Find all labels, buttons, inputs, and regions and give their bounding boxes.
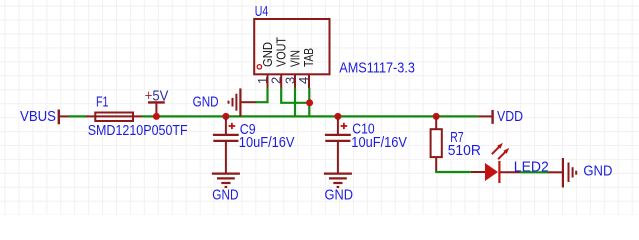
svg-text:U4: U4 xyxy=(255,4,269,20)
pin 1 indicator circle xyxy=(257,65,261,69)
svg-text:SMD1210P050TF: SMD1210P050TF xyxy=(88,123,188,139)
svg-text:GND: GND xyxy=(212,187,238,203)
wire pin4 down through junction to main wire xyxy=(308,88,310,117)
svg-text:10uF/16V: 10uF/16V xyxy=(239,135,295,151)
svg-text:GND: GND xyxy=(583,164,612,180)
ground flag at U4 (rotated left) xyxy=(193,88,256,116)
svg-text:GND: GND xyxy=(193,95,219,111)
wire pin2 to pin4 junction xyxy=(281,88,309,103)
svg-text:+5V: +5V xyxy=(145,89,169,105)
op-amp U4 box (AMS1117-3.3 regulator) xyxy=(254,4,329,75)
ground C10 xyxy=(324,174,353,204)
wire pin1 to GND flag xyxy=(255,88,268,102)
junction +5V on main wire xyxy=(153,113,160,120)
wire R7 to LED2 xyxy=(435,171,471,173)
pin stub 3 xyxy=(294,74,296,88)
node VBUS port xyxy=(20,109,69,125)
junction VOUT-TAB xyxy=(306,99,313,106)
svg-text:TAB: TAB xyxy=(301,48,316,67)
capacitor C9 xyxy=(213,116,295,172)
power flag +5V xyxy=(145,89,169,117)
resistor R7 xyxy=(431,116,481,172)
svg-text:GND: GND xyxy=(325,187,354,203)
junction C9 xyxy=(222,113,229,120)
wire VBUS to F1 xyxy=(69,115,87,117)
svg-text:VBUS: VBUS xyxy=(20,109,56,125)
wire F1 to +5V junction and onward xyxy=(142,115,478,117)
junction C10 xyxy=(334,113,341,120)
svg-text:VOUT: VOUT xyxy=(274,37,289,67)
svg-text:VDD: VDD xyxy=(497,109,523,125)
pin stub 4 xyxy=(308,74,310,88)
svg-text:10uF/16V: 10uF/16V xyxy=(351,135,407,151)
svg-text:GND: GND xyxy=(260,42,275,67)
svg-text:AMS1117-3.3: AMS1117-3.3 xyxy=(339,61,415,77)
pin stub 2 xyxy=(280,74,282,88)
ground C9 xyxy=(212,174,240,204)
node VDD port xyxy=(478,109,523,125)
wire LED2 to GND flag xyxy=(520,171,549,173)
capacitor C10 xyxy=(325,116,408,172)
svg-text:510R: 510R xyxy=(448,143,481,159)
fuse F1 xyxy=(86,94,142,121)
junction R7 xyxy=(433,113,440,120)
pin stub 1 xyxy=(267,74,269,88)
svg-text:F1: F1 xyxy=(96,94,109,110)
wire pin3 down to main wire xyxy=(294,88,296,117)
LED LED2 xyxy=(471,143,549,183)
ground flag at LED (rotated right) xyxy=(549,158,613,188)
